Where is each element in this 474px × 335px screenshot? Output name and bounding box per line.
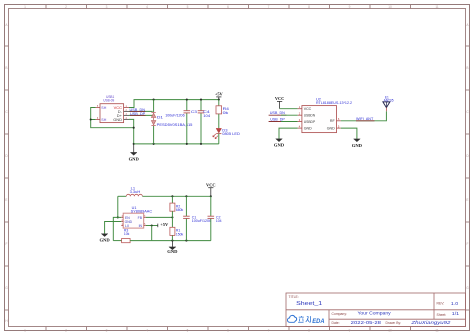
glyph li [298, 316, 304, 322]
svg-text:Sheet_1: Sheet_1 [296, 301, 322, 307]
svg-text:B: B [5, 66, 7, 70]
pin stub U1 EN [121, 215, 123, 218]
junction node D1 top [153, 99, 155, 101]
svg-text:2: 2 [65, 329, 67, 333]
svg-text:10: 10 [388, 329, 392, 333]
svg-text:150k: 150k [176, 232, 184, 236]
wire USB_DP [281, 121, 298, 123]
svg-text:EDA: EDA [312, 319, 324, 325]
svg-text:RTL8188EUS-13*12.2: RTL8188EUS-13*12.2 [316, 101, 352, 105]
svg-text:8: 8 [308, 5, 310, 9]
svg-text:VCC: VCC [206, 183, 216, 188]
pin stub U2-2 [298, 112, 302, 116]
svg-text:Drawn By:: Drawn By: [386, 321, 402, 325]
TITLEBLOCK [286, 293, 466, 327]
power flag VCC [275, 96, 285, 109]
svg-text:GND: GND [167, 249, 178, 254]
svg-text:4: 4 [146, 5, 148, 9]
pin stub U2-1 [298, 105, 302, 109]
svg-text:C3: C3 [191, 109, 198, 114]
pin stub U2-5 GND [337, 124, 341, 128]
svg-text:F: F [6, 242, 8, 246]
junction [218, 99, 220, 101]
ground [352, 139, 363, 148]
svg-text:+5V: +5V [215, 91, 224, 96]
power flag VCC [206, 183, 216, 197]
svg-text:TITLE:: TITLE: [289, 295, 299, 299]
svg-text:6: 6 [227, 5, 229, 9]
resistor R1 [170, 217, 184, 240]
svg-text:GND: GND [274, 143, 285, 148]
svg-text:E: E [466, 198, 468, 202]
svg-text:100uF/1206: 100uF/1206 [192, 219, 211, 223]
junction node D1 bottom [153, 143, 155, 145]
svg-text:104: 104 [203, 113, 211, 118]
svg-text:LX: LX [125, 224, 130, 228]
junction [133, 143, 135, 145]
svg-text:Sheet:: Sheet: [437, 313, 447, 317]
wire USB_DN [281, 114, 298, 116]
junction [117, 216, 119, 218]
svg-text:0k: 0k [223, 110, 229, 115]
ground [99, 234, 110, 243]
svg-text:1.0: 1.0 [451, 301, 459, 306]
ground [274, 139, 285, 148]
wire GND pin down [129, 119, 134, 143]
wire FB [146, 216, 173, 218]
pin stub U2-3 [298, 118, 302, 122]
junction [171, 240, 173, 242]
junction rail top C2 [210, 195, 212, 197]
resistor R2 [170, 196, 184, 217]
pin stub U1 IN [144, 223, 146, 226]
wire R4 to LED [218, 114, 220, 128]
pin stub U2-6 RF [337, 117, 341, 121]
svg-text:3.3uH: 3.3uH [130, 190, 141, 194]
svg-text:B: B [466, 66, 468, 70]
svg-text:F: F [467, 242, 469, 246]
inductor L1 [118, 187, 143, 197]
CIRCUIT1 [90, 91, 240, 161]
junction [133, 127, 135, 129]
led D3 [213, 128, 240, 138]
svg-text:2022-05-28: 2022-05-28 [351, 320, 382, 325]
wire D+ net [129, 114, 153, 116]
svg-text:E: E [5, 198, 7, 202]
wire D- net [129, 110, 153, 112]
capacitor C3 [165, 99, 198, 145]
svg-text:5: 5 [187, 5, 189, 9]
pin stub U1 GND [121, 219, 123, 222]
capacitor C4 [198, 99, 211, 145]
wire bottom rail [134, 143, 219, 145]
wire bottom rail c3 [152, 240, 211, 242]
wire IN to +5V [146, 225, 158, 227]
svg-text:GND: GND [327, 127, 335, 131]
power flag +5V [215, 91, 224, 99]
svg-text:Your Company: Your Company [358, 311, 392, 316]
svg-text:8: 8 [308, 329, 310, 333]
svg-text:6: 6 [227, 329, 229, 333]
wire U2 gnd right [341, 128, 357, 139]
net label USB_DN [269, 111, 287, 115]
svg-text:REV:: REV: [437, 302, 445, 306]
svg-text:3: 3 [106, 5, 108, 9]
svg-text:GND: GND [129, 156, 140, 161]
svg-text:0805 LED: 0805 LED [222, 132, 240, 136]
svg-text:11: 11 [435, 329, 439, 333]
svg-text:SY8089AAC: SY8089AAC [131, 209, 153, 213]
svg-text:680k: 680k [176, 208, 184, 212]
wire VCC to +5V rail [129, 100, 219, 108]
ground [129, 144, 140, 161]
svg-text:100uF/1206: 100uF/1206 [165, 113, 184, 117]
wire +5V to R4 [218, 100, 220, 106]
svg-text:11: 11 [435, 5, 439, 9]
svg-text:Company:: Company: [332, 312, 348, 316]
svg-text:GND: GND [113, 117, 122, 122]
svg-text:VCC: VCC [275, 96, 285, 101]
svg-text:SH: SH [101, 118, 106, 122]
connector USB1 [100, 95, 124, 122]
wire to R3 [113, 240, 121, 242]
CIRCUIT2 [269, 95, 394, 147]
net label USB_DN [129, 108, 145, 112]
capacitor C1 [183, 196, 211, 240]
ic U2 [302, 97, 352, 132]
ic U1 [123, 206, 152, 228]
pin stub D- [124, 109, 129, 112]
svg-text:GND: GND [304, 127, 312, 131]
svg-text:SH: SH [101, 106, 106, 110]
svg-text:7: 7 [268, 5, 270, 9]
CIRCUIT3 [99, 183, 221, 255]
junction [185, 240, 187, 242]
junction rail top R2 [171, 195, 173, 197]
svg-text:Date:: Date: [332, 321, 340, 325]
wire LED to rail [218, 134, 220, 144]
pin stub SH2 [96, 117, 100, 120]
wire L1 left down [117, 196, 119, 217]
wire U2 gnd left [279, 128, 298, 139]
wire U1 gnd left [105, 222, 122, 234]
pin stub U2-4 [298, 124, 302, 128]
svg-text:FB: FB [138, 216, 143, 220]
logo cloud [287, 315, 324, 325]
svg-text:+5V: +5V [160, 222, 169, 227]
svg-text:2: 2 [65, 5, 67, 9]
svg-text:GND: GND [352, 143, 363, 148]
pin stub D+ [124, 113, 129, 116]
tvs diode D1 [151, 112, 155, 125]
svg-text:ANT05: ANT05 [384, 99, 394, 103]
pin stub GND [124, 117, 129, 120]
svg-text:5: 5 [187, 329, 189, 333]
svg-text:IN: IN [139, 224, 143, 228]
resistor R4 [216, 106, 230, 115]
svg-text:1: 1 [24, 329, 26, 333]
svg-text:9: 9 [349, 329, 351, 333]
wire shield to gnd [91, 108, 134, 128]
svg-text:4: 4 [146, 329, 148, 333]
net label USB_DP [269, 118, 287, 122]
svg-text:GND: GND [99, 237, 110, 242]
svg-text:10: 10 [388, 5, 392, 9]
ground [167, 241, 178, 255]
svg-text:ZhuXiangyu92: ZhuXiangyu92 [410, 320, 451, 325]
junction [90, 118, 92, 120]
svg-text:USBDP: USBDP [304, 120, 316, 124]
wire EN node [113, 217, 121, 240]
resistor R3 [122, 229, 131, 243]
svg-text:USB_DN: USB_DN [270, 111, 285, 115]
junction [151, 224, 153, 226]
svg-text:RF: RF [330, 119, 336, 123]
wire VCC to pin1 [280, 108, 298, 110]
glyph chuang [306, 316, 311, 322]
wire R3 right [130, 240, 152, 242]
svg-text:1/1: 1/1 [452, 311, 460, 316]
capacitor C2 [208, 196, 222, 240]
svg-text:3: 3 [106, 329, 108, 333]
svg-text:104: 104 [216, 219, 222, 223]
pin stub VCC [124, 105, 129, 108]
net label WIFI_ANT [356, 117, 375, 121]
svg-text:USB-09: USB-09 [103, 99, 114, 103]
pin stub SH1 [96, 105, 100, 108]
junction [171, 216, 173, 218]
svg-text:9: 9 [349, 5, 351, 9]
pin stub U1 LX [121, 223, 123, 226]
net label USB_DP [130, 112, 146, 116]
junction rail top C1 [185, 195, 187, 197]
wire IN junction down [151, 226, 153, 241]
svg-text:D1: D1 [157, 115, 164, 120]
pin stub U1 FB [144, 215, 146, 218]
wire D1 branch [153, 100, 155, 144]
svg-text:1: 1 [24, 5, 26, 9]
svg-text:10k: 10k [124, 232, 130, 236]
power flag +5V [158, 222, 169, 227]
wire L1 to VCC rail [142, 195, 210, 197]
antenna E1 [383, 95, 394, 111]
svg-text:7: 7 [268, 329, 270, 333]
wire RF to antenna [341, 111, 387, 121]
svg-text:VCC: VCC [304, 107, 312, 111]
svg-text:USBDN: USBDN [304, 114, 316, 118]
